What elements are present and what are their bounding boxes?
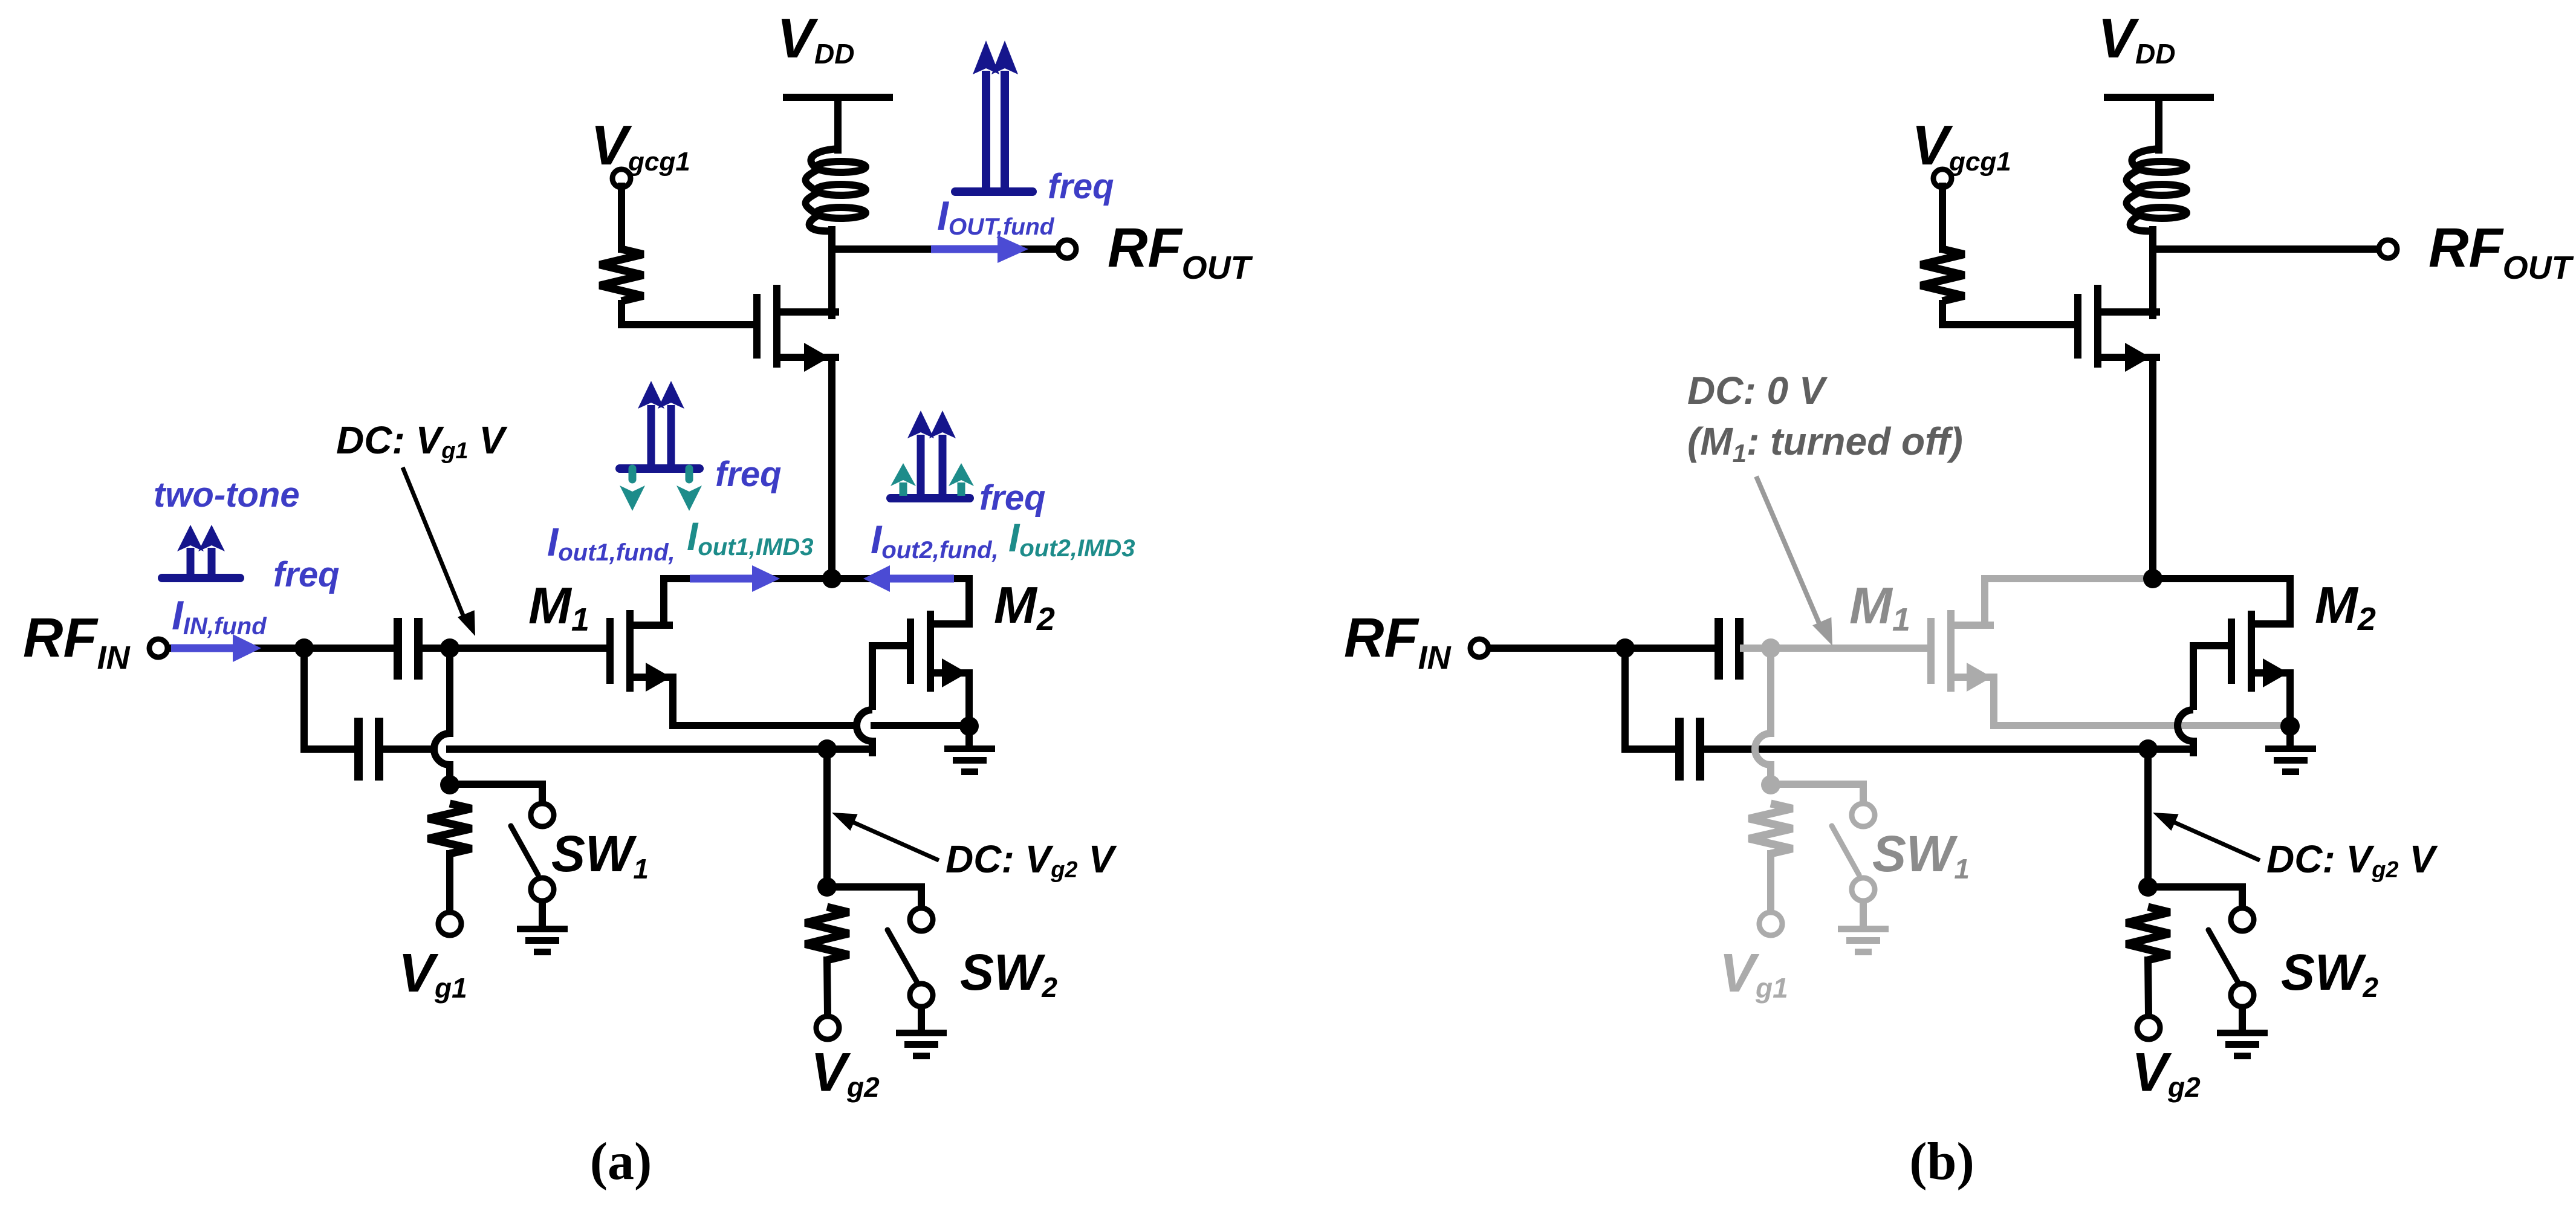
wire VDD stub (a) [834,97,842,150]
terminal Vg2 (a) [816,1016,839,1039]
transistor CG cascode (b) [2074,294,2081,359]
wire hop over source line (b) [2178,710,2193,741]
wire R_gcg1 to CG gate (a) [621,300,753,325]
resistor R_g2 (b) [2126,907,2170,960]
wire R_g2 to Vg2 terminal (b) [2148,960,2149,1015]
I_OUT spectrum icon (a) [955,187,1033,196]
wire C1 to M1 gate (a) [423,645,606,652]
wire to SW1 (a) [450,784,542,802]
svg-text:freq: freq [979,478,1046,518]
wire drain rail M1-M2 (b) [1985,575,2153,582]
node Vg1 dot (b) [1761,775,1780,794]
wire drain node vertical (a) [828,230,835,316]
wire M1 source down (b) [1990,677,1997,726]
wire to SW2 (a) [827,887,921,906]
I_IN current arrow (a) [171,645,233,652]
wire to SW1 (b) [1771,784,1863,802]
terminal RF_IN (a) [149,639,167,657]
wire VDD stub (b) [2155,97,2162,150]
wire R_gcg1 to CG gate (b) [1942,300,2074,325]
node RF_IN junction dot (a) [294,638,314,658]
wire M2 drain up (a) [965,579,973,624]
wire CG source down (a) [828,357,835,579]
wire drain node vertical (b) [2149,230,2156,316]
node Vg2 dot (b) [2138,877,2158,897]
wire Vg2 down (b) [2144,749,2152,887]
two-tone spectrum icon (a) [162,574,240,582]
wire hop over source line (a) [857,710,872,741]
wire gate node down (a) [446,648,453,733]
terminal RF_OUT (b) [2379,240,2397,258]
ground SW1 (a) [517,926,568,932]
transistor M2 (a) [907,619,914,684]
node drain rail dot (a) [822,569,842,588]
wire M1 drain up (a) [660,579,667,625]
ground SW2 (a) [896,1030,947,1036]
wire RF_OUT line (b) [2153,245,2378,253]
terminal Vgcg1 (a) [612,169,631,187]
wire M1 drain up (b) [1981,579,1988,625]
capacitor C2 (a) [354,718,363,781]
wire R_g2 to Vg2 terminal (a) [827,960,828,1015]
resistor R_g1 (a) [428,804,472,854]
wire M2 drain up (b) [2286,579,2294,624]
I_out1 current arrow (a) [690,575,752,583]
wire hop over gate line (b) [1755,733,1771,765]
DC Vg2 pointer arrow (b) [2167,819,2260,860]
svg-text:freq: freq [715,455,782,494]
wire RF_OUT line (a) [832,245,1057,253]
wire hop over gate line (a) [434,733,450,765]
wire to SW2 (b) [2148,887,2242,906]
I_out2 spectrum icon (a) [891,494,970,502]
transistor CG cascode (a) [753,294,761,359]
svg-text:DC: Vg2 V: DC: Vg2 V [946,837,1117,883]
ground M2 source (b) [2286,726,2294,745]
svg-text:(a): (a) [590,1132,652,1191]
wire gate line to M2 (b) [1704,745,2193,753]
transistor M1 (a) [606,618,614,684]
resistor R_g1 (b) [1749,804,1792,854]
wire drain rail M1-M2 (a) [664,575,969,582]
inductor L1 (b) [2137,161,2187,172]
capacitor C1 (a) [394,618,402,680]
svg-text:two-tone: two-tone [154,475,300,515]
node drain rail dot (b) [2143,569,2162,588]
svg-text:(b): (b) [1909,1132,1974,1191]
capacitor C1 (b) [1715,618,1723,680]
wire Vgcg1 down (a) [618,186,625,249]
wire junction down to C2 (a) [304,648,354,749]
svg-text:DC: 0 V: DC: 0 V [1687,369,1828,412]
node Vg1 dot (a) [440,775,459,794]
terminal Vg1 (a) [438,912,461,935]
VDD supply bar (a) [783,94,893,101]
node M2 source dot (b) [2280,716,2300,736]
node M2 source dot (a) [959,716,979,736]
terminal Vg2 (b) [2137,1016,2160,1039]
wire M2 gate lead (b) [2193,646,2228,710]
wire gate node down (b) [1767,648,1774,733]
wire M2 gate lead (a) [872,646,907,710]
I_OUT current arrow (a) [931,245,998,253]
terminal RF_IN (b) [1470,639,1488,657]
resistor R_gcg1 (b) [1921,249,1964,301]
transistor M1 (b) [1927,618,1935,684]
node Vg2 dot (a) [817,877,837,897]
wire junction to C1 (a) [304,645,394,652]
wire RF_IN to junction (a) [169,645,304,652]
wire M2 source down (b) [2286,673,2294,726]
svg-text:freq: freq [1048,167,1114,206]
wire CG source down (b) [2149,357,2156,579]
ground SW1 (b) [1838,926,1889,932]
switch SW1 (b) [1852,804,1875,826]
node RF_IN junction dot (b) [1615,638,1635,658]
wire source line (b) [1994,722,2290,729]
wire Vg2 down (a) [823,749,831,887]
switch SW1 (a) [531,804,554,826]
DC Vg2 pointer arrow (a) [846,819,939,860]
node M1 gate dot (a) [440,638,459,658]
wire source line (a) [673,722,856,729]
resistor R_g2 (a) [805,907,849,960]
transistor M2 (b) [2228,619,2235,684]
ground M2 source (a) [965,726,973,745]
resistor R_gcg1 (a) [600,249,643,301]
I_out1 spectrum icon (a) [620,464,699,473]
svg-text:(M1: turned off): (M1: turned off) [1687,420,1963,467]
wire C1 to M1 gate (b) [1744,645,1927,652]
wire R_g1 to Vg1 terminal (b) [1767,854,1774,912]
wire junction down to C2 (b) [1625,648,1675,749]
wire R_g1 to Vg1 terminal (a) [446,854,453,912]
node gate line dot (b) [2138,739,2158,759]
DC 0V pointer arrow (b) [1756,476,1822,629]
terminal RF_OUT (a) [1058,240,1076,258]
wire Vgcg1 down (b) [1939,186,1946,249]
wire M1 source down (a) [669,677,676,726]
switch SW2 (a) [910,908,933,931]
capacitor C2 (b) [1675,718,1684,781]
I_out2 current arrow (a) [890,575,954,583]
ground SW2 (b) [2217,1030,2268,1036]
terminal Vg1 (b) [1759,912,1782,935]
DC Vg1 pointer arrow (a) [403,467,466,623]
wire M2 source down (a) [965,673,973,726]
wire RF_IN to junction (b) [1490,645,1625,652]
switch SW2 (b) [2231,908,2254,931]
wire junction to C1 (b) [1625,645,1715,652]
wire gate line to M2 (a) [383,745,432,753]
inductor L1 (a) [816,161,866,172]
svg-text:freq: freq [273,555,340,594]
VDD supply bar (b) [2104,94,2214,101]
svg-text:DC: Vg1 V: DC: Vg1 V [336,418,508,464]
node gate line dot (a) [817,739,837,759]
node M1 gate dot (b) [1761,638,1780,658]
svg-text:DC: Vg2 V: DC: Vg2 V [2266,837,2438,883]
terminal Vgcg1 (b) [1933,169,1951,187]
